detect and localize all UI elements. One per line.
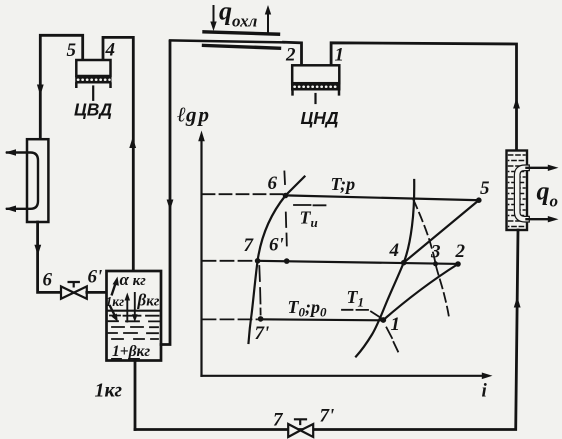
vessel liquid level line	[108, 310, 160, 312]
wire: vessel bottom liquid down	[134, 361, 137, 430]
dashed vertical 7 to 7'	[259, 266, 260, 315]
svg-text:6': 6'	[269, 235, 284, 256]
compressor ЦВД (high pressure cylinder)	[75, 60, 111, 100]
vessel internal arrows	[110, 277, 138, 323]
wire: evaporator bottom to valve 7' (bottom line)	[135, 230, 518, 430]
wire: vessel vapor to HP compressor suction port 4	[103, 37, 133, 270]
wire arrow up into evaporator	[514, 297, 521, 308]
state point 5	[476, 197, 482, 203]
svg-text:α кг: α кг	[120, 270, 147, 289]
state point 7'	[258, 316, 264, 322]
wire: intercooler down to vessel (bubbler)	[161, 42, 170, 345]
intercooler (water-cooled, q охл)	[170, 5, 284, 48]
svg-text:βкг: βкг	[137, 291, 160, 310]
wire: HP compressor discharge (port 5 to condenser top)	[40, 35, 82, 139]
arrow 1kg into liquid	[110, 305, 116, 317]
svg-text:7': 7'	[255, 323, 270, 344]
svg-text:ЦВД: ЦВД	[74, 100, 112, 120]
svg-text:2: 2	[285, 45, 296, 66]
state point 2	[455, 261, 461, 267]
arrow alpha up	[112, 281, 117, 296]
compression line 4-5	[404, 200, 479, 263]
dashed isotherm T through 3	[414, 200, 450, 318]
state point 6'	[284, 258, 290, 264]
state point 7	[255, 258, 261, 264]
wire: LP compressor discharge port 2 to intercooler	[284, 42, 302, 65]
state point 3	[433, 261, 438, 266]
vessel liquid hatching	[109, 316, 160, 359]
dashed isotherm T1 through 1	[342, 310, 398, 352]
arrow beta vapor up	[126, 298, 128, 323]
svg-text:5: 5	[480, 178, 490, 199]
svg-text:1: 1	[335, 45, 345, 66]
state point 4	[401, 260, 407, 266]
wire: condenser to expansion valve 6	[38, 222, 61, 292]
state point 6	[283, 193, 289, 199]
saturated vapor curve (through 4 and 1)	[356, 180, 414, 357]
isobar T0;p0 (7' to 1)	[261, 319, 384, 320]
svg-text:4: 4	[105, 40, 116, 61]
wire arrow down on bubbler line	[167, 200, 174, 211]
dashed pressure level p (top)	[203, 193, 284, 195]
wire arrow down on condenser feed	[37, 85, 44, 96]
svg-text:i: i	[482, 381, 488, 402]
svg-text:1: 1	[391, 314, 401, 335]
svg-text:1кг: 1кг	[106, 294, 125, 309]
svg-text:7: 7	[244, 235, 255, 256]
dashed pressure level p intermediate	[203, 260, 255, 262]
svg-text:7': 7'	[320, 406, 335, 427]
label box 1+beta kg	[111, 343, 158, 359]
isobar intermediate (7 to 2)	[258, 261, 459, 264]
intermediate vessel	[107, 271, 162, 361]
evaporator (q o)	[507, 151, 559, 231]
svg-text:6': 6'	[88, 267, 103, 288]
arrow beta down	[134, 292, 136, 317]
svg-text:4: 4	[389, 240, 400, 261]
svg-text:3: 3	[430, 242, 441, 263]
dashed pressure level p0 (bottom)	[203, 318, 258, 320]
svg-text:1+βкг: 1+βкг	[112, 343, 150, 360]
svg-text:6: 6	[43, 270, 53, 291]
dashed Tи isotherm tick	[294, 204, 326, 206]
wire arrow up to port 1	[513, 98, 520, 109]
saturated liquid curve (through 7 and 6)	[249, 177, 305, 344]
compression line 1-2	[383, 264, 458, 320]
svg-text:2: 2	[455, 241, 466, 262]
wire: evaporator to LP suction port 1	[331, 43, 516, 151]
condenser (rect with U-tube, cooling water arrows)	[5, 139, 48, 222]
wire arrow down before valve 6	[34, 245, 41, 256]
axis lg p (vertical)	[200, 141, 202, 376]
svg-text:1кг: 1кг	[95, 380, 123, 402]
dashed vertical 6 to 6'	[284, 172, 286, 246]
isobar T;p (6 to 5)	[286, 195, 480, 200]
svg-text:T;p: T;p	[331, 174, 356, 194]
svg-text:ℓgp: ℓgp	[177, 103, 209, 127]
compressor ЦНД (low pressure cylinder)	[291, 65, 341, 103]
expansion valve 7-7'	[288, 419, 313, 437]
state point 1	[380, 317, 386, 323]
svg-text:6: 6	[268, 173, 278, 194]
svg-text:ЦНД: ЦНД	[301, 108, 339, 128]
wire arrow up to port 4	[129, 137, 136, 148]
svg-text:7: 7	[273, 410, 284, 431]
wire: valve 6' to intermediate vessel	[87, 291, 107, 294]
expansion valve 6-6'	[61, 282, 87, 299]
axis i (horizontal)	[202, 375, 483, 377]
svg-text:5: 5	[67, 40, 77, 61]
